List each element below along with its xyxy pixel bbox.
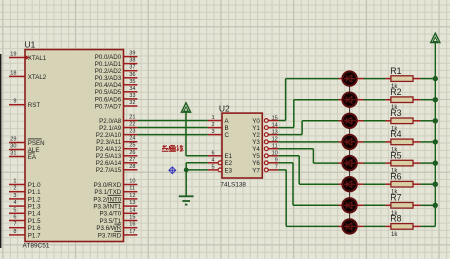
- svg-text:P2.3/A11: P2.3/A11: [96, 139, 122, 146]
- selection marker (blue): [169, 167, 176, 174]
- svg-text:XTAL2: XTAL2: [28, 74, 47, 81]
- svg-text:P1.0: P1.0: [28, 182, 41, 189]
- svg-text:U1: U1: [25, 40, 36, 50]
- pin P0.2/AD2 (37) U1 right: [95, 65, 138, 75]
- svg-text:32: 32: [129, 100, 135, 106]
- resistor R6 (1k): [385, 171, 420, 195]
- svg-text:6: 6: [13, 215, 16, 221]
- svg-text:5: 5: [211, 164, 214, 170]
- pin P2.4/A12 (25) U1 right: [96, 143, 138, 153]
- svg-text:37: 37: [129, 65, 135, 71]
- svg-text:19: 19: [10, 52, 16, 58]
- pin E1 (6) U2 left: [208, 150, 233, 160]
- svg-text:26: 26: [129, 150, 135, 156]
- LED D7: [339, 198, 364, 212]
- svg-text:P1.6: P1.6: [28, 225, 41, 232]
- pin A (1) U2 left: [208, 115, 230, 125]
- junction node rail row 4: [433, 139, 438, 144]
- wire resistor R3 to VCC rail: [420, 120, 435, 122]
- svg-text:2: 2: [13, 186, 16, 192]
- wire LED D1 to resistor R1: [364, 78, 386, 80]
- svg-text:17: 17: [129, 229, 135, 235]
- svg-text:AT89C51: AT89C51: [23, 243, 50, 250]
- pin P2.7/A15 (28) U1 right: [96, 164, 138, 174]
- wire resistor R1 to VCC rail: [420, 78, 435, 80]
- svg-text:18: 18: [10, 70, 16, 76]
- svg-text:11: 11: [129, 186, 135, 192]
- op U1 body (AT89C51): [25, 50, 124, 242]
- svg-text:38: 38: [129, 58, 135, 64]
- svg-text:P3.0/RXD: P3.0/RXD: [94, 182, 122, 189]
- wire LED D4 to resistor R4: [364, 141, 386, 143]
- svg-text:Y6: Y6: [252, 160, 260, 167]
- svg-text:P2.2/A10: P2.2/A10: [96, 132, 122, 139]
- pin Y0 (15) U2 right: [252, 115, 278, 125]
- svg-text:35: 35: [129, 79, 135, 85]
- pin P2.0/A8 (21) U1 right: [99, 115, 137, 125]
- svg-text:P1.3: P1.3: [28, 204, 41, 211]
- svg-text:Y7: Y7: [252, 167, 260, 174]
- junction node rail row 2: [433, 97, 438, 102]
- pin Y3 (12) U2 right: [252, 137, 278, 147]
- pin P3.5/T1 (15) U1 right: [100, 215, 138, 225]
- pin P2.6/A14 (27) U1 right: [96, 157, 138, 167]
- svg-text:Y0: Y0: [252, 118, 260, 125]
- svg-text:4: 4: [13, 200, 16, 206]
- svg-text:16: 16: [129, 222, 135, 228]
- svg-text:P3.4/T0: P3.4/T0: [100, 211, 122, 218]
- svg-text:P1.2: P1.2: [28, 196, 41, 203]
- pin P1.7 (8) U1 left: [9, 229, 41, 239]
- wire E3 to ground net: [186, 169, 208, 171]
- svg-text:13: 13: [272, 129, 278, 135]
- svg-text:P0.0/AD0: P0.0/AD0: [95, 54, 122, 61]
- pin P1.1 (2) U1 left: [9, 186, 41, 196]
- svg-text:P0.6/AD6: P0.6/AD6: [95, 96, 122, 103]
- power symbol VCC top right: [431, 33, 440, 42]
- wire P2.1 to U2 B: [137, 127, 208, 129]
- svg-text:30: 30: [10, 144, 16, 150]
- svg-text:P2.7/A15: P2.7/A15: [96, 167, 122, 174]
- svg-text:5: 5: [13, 207, 16, 213]
- wire Y4 to LED D5: [278, 149, 338, 163]
- svg-text:9: 9: [275, 158, 278, 164]
- svg-text:15: 15: [272, 115, 278, 121]
- LED D1: [339, 71, 364, 85]
- pin P3.3/INT1 (13) U1 right: [93, 200, 137, 210]
- svg-text:XTAL1: XTAL1: [28, 55, 47, 62]
- pin PSEN (29) U1 left: [9, 137, 45, 147]
- svg-text:P1.7: P1.7: [28, 232, 41, 239]
- wire power to E1: [186, 111, 208, 155]
- pin P2.3/A11 (24) U1 right: [96, 136, 137, 146]
- svg-text:P2.5/A13: P2.5/A13: [96, 153, 122, 160]
- svg-text:E2: E2: [225, 160, 233, 167]
- svg-text:Y5: Y5: [252, 153, 260, 160]
- wire resistor R8 to VCC rail: [420, 225, 435, 227]
- svg-text:21: 21: [129, 115, 135, 121]
- svg-text:7: 7: [275, 165, 278, 171]
- svg-text:R4: R4: [390, 129, 401, 139]
- pin P0.3/AD3 (36) U1 right: [95, 72, 138, 82]
- wire Y2 to LED D3: [278, 121, 338, 135]
- pin P0.4/AD4 (35) U1 right: [95, 79, 138, 89]
- svg-text:R7: R7: [390, 193, 401, 203]
- pin P2.1/A9 (22) U1 right: [99, 122, 137, 132]
- svg-text:RST: RST: [28, 102, 41, 109]
- svg-text:P2.1/A9: P2.1/A9: [99, 125, 122, 132]
- wire resistor R2 to VCC rail: [420, 99, 435, 101]
- pin E2 (4) U2 left: [208, 157, 233, 167]
- pin P0.0/AD0 (39) U1 right: [95, 51, 138, 61]
- svg-text:1k: 1k: [391, 232, 398, 238]
- junction node rail row 3: [433, 118, 438, 123]
- pin P3.4/T0 (14) U1 right: [100, 207, 138, 217]
- pin XTAL1 (19) U1 left: [9, 52, 47, 62]
- pin XTAL2 (18) U1 left: [9, 70, 47, 80]
- pin C (3) U2 left: [208, 129, 230, 139]
- svg-text:22: 22: [129, 122, 135, 128]
- resistor R2 (1k): [385, 87, 420, 111]
- svg-text:1: 1: [211, 115, 214, 121]
- svg-text:25: 25: [129, 143, 135, 149]
- wire Y7 to LED D8: [278, 170, 338, 227]
- svg-text:R8: R8: [390, 214, 401, 224]
- pin RST (9) U1 left: [9, 99, 40, 109]
- wire Y0 to LED D1: [278, 79, 338, 121]
- pin P3.1/TXD (11) U1 right: [94, 186, 137, 196]
- pin P0.5/AD5 (34) U1 right: [95, 86, 138, 96]
- svg-text:12: 12: [272, 137, 278, 143]
- svg-text:P2.4/A12: P2.4/A12: [96, 146, 122, 153]
- svg-text:10: 10: [129, 179, 135, 185]
- pin B (2) U2 left: [208, 122, 229, 132]
- resistor R1 (1k): [385, 66, 420, 90]
- svg-text:29: 29: [10, 137, 16, 143]
- svg-text:31: 31: [10, 151, 16, 157]
- wire LED D6 to resistor R6: [364, 183, 386, 185]
- svg-text:8: 8: [13, 229, 16, 235]
- pin P1.0 (1) U1 left: [9, 179, 41, 189]
- pin P1.5 (6) U1 left: [9, 215, 41, 225]
- svg-text:2: 2: [211, 122, 214, 128]
- svg-text:11: 11: [272, 144, 278, 150]
- wire LED D2 to resistor R2: [364, 99, 386, 101]
- svg-text:P1.4: P1.4: [28, 211, 41, 218]
- wire LED D7 to resistor R7: [364, 204, 386, 206]
- artifact vertical line through LED column: [349, 79, 351, 227]
- wire Y3 to LED D4: [278, 141, 338, 143]
- svg-text:P0.2/AD2: P0.2/AD2: [95, 68, 122, 75]
- svg-text:R2: R2: [390, 87, 401, 97]
- LED D6: [339, 177, 364, 191]
- svg-text:R3: R3: [390, 108, 401, 118]
- pin P2.2/A10 (23) U1 right: [96, 129, 138, 139]
- pin P3.2/INT0 (12) U1 right: [93, 193, 137, 203]
- junction node E3: [184, 168, 189, 173]
- pin EA (31) U1 left: [9, 151, 37, 161]
- pin ALE (30) U1 left: [9, 144, 40, 154]
- svg-text:EA: EA: [28, 154, 37, 161]
- svg-text:10: 10: [272, 151, 278, 157]
- svg-text:R6: R6: [390, 171, 401, 181]
- svg-text:15: 15: [129, 215, 135, 221]
- resistor R3 (1k): [385, 108, 420, 132]
- screen edge artifact left: [0, 54, 1, 248]
- junction node rail row 1: [433, 76, 438, 81]
- svg-text:28: 28: [129, 164, 135, 170]
- pin P0.1/AD1 (38) U1 right: [95, 58, 138, 68]
- svg-text:24: 24: [129, 136, 135, 142]
- svg-text:6: 6: [211, 150, 214, 156]
- power symbol on E1 net: [181, 103, 190, 112]
- svg-text:PSEN: PSEN: [28, 140, 45, 147]
- svg-text:Y2: Y2: [252, 132, 260, 139]
- pin marker XTAL1 input arrow: [25, 55, 30, 59]
- wire VCC vertical rail: [434, 43, 436, 227]
- pin P3.7/RD (17) U1 right: [98, 229, 138, 239]
- svg-text:12: 12: [129, 193, 135, 199]
- svg-text:Y4: Y4: [252, 146, 260, 153]
- pin Y4 (11) U2 right: [252, 144, 278, 154]
- svg-text:3: 3: [211, 129, 214, 135]
- svg-text:P3.3/INT1: P3.3/INT1: [93, 204, 121, 211]
- svg-text:P2.0/A8: P2.0/A8: [99, 118, 122, 125]
- svg-text:14: 14: [272, 122, 278, 128]
- net label 选通线 (hand-drawn glyphs): [162, 145, 184, 152]
- wire resistor R6 to VCC rail: [420, 183, 435, 185]
- wire resistor R5 to VCC rail: [420, 162, 435, 164]
- wire Y1 to LED D2: [278, 100, 338, 128]
- junction node rail row 7: [433, 203, 438, 208]
- svg-text:B: B: [225, 125, 229, 132]
- LED D2: [339, 93, 364, 107]
- pin E3 (5) U2 left: [208, 164, 233, 174]
- svg-text:P0.5/AD5: P0.5/AD5: [95, 89, 122, 96]
- svg-text:4: 4: [211, 157, 214, 163]
- svg-text:1: 1: [13, 179, 16, 185]
- svg-text:R1: R1: [390, 66, 401, 76]
- pin P3.6/WR (16) U1 right: [96, 222, 137, 232]
- LED D4: [339, 135, 364, 149]
- svg-text:P0.1/AD1: P0.1/AD1: [95, 61, 122, 68]
- svg-text:E1: E1: [225, 153, 233, 160]
- wire LED D5 to resistor R5: [364, 162, 386, 164]
- svg-text:E3: E3: [225, 167, 233, 174]
- resistor R5 (1k): [385, 150, 420, 174]
- ground symbol: [179, 196, 194, 204]
- svg-text:13: 13: [129, 200, 135, 206]
- wire E2 to ground net: [186, 163, 208, 196]
- svg-text:3: 3: [13, 193, 16, 199]
- svg-text:U2: U2: [219, 103, 230, 113]
- svg-text:P0.3/AD3: P0.3/AD3: [95, 75, 122, 82]
- wire LED D8 to resistor R8: [364, 225, 386, 227]
- pin P1.2 (3) U1 left: [9, 193, 41, 203]
- svg-text:39: 39: [129, 51, 135, 57]
- svg-text:27: 27: [129, 157, 135, 163]
- svg-text:P2.6/A14: P2.6/A14: [96, 160, 122, 167]
- pin Y2 (13) U2 right: [252, 129, 278, 139]
- svg-text:P3.7/RD: P3.7/RD: [98, 232, 122, 239]
- svg-text:C: C: [225, 132, 230, 139]
- pin P0.6/AD6 (33) U1 right: [95, 93, 138, 103]
- svg-text:P1.5: P1.5: [28, 218, 41, 225]
- svg-text:14: 14: [129, 207, 135, 213]
- resistor R8 (1k): [385, 214, 420, 238]
- svg-text:P1.1: P1.1: [28, 189, 41, 196]
- pin P2.5/A13 (26) U1 right: [96, 150, 138, 160]
- resistor R7 (1k): [385, 193, 420, 217]
- pin Y1 (14) U2 right: [252, 122, 278, 132]
- wire LED D3 to resistor R3: [364, 120, 386, 122]
- svg-text:36: 36: [129, 72, 135, 78]
- wire Y5 to LED D6: [278, 156, 338, 184]
- pin Y7 (7) U2 right: [252, 165, 278, 175]
- pin P1.6 (7) U1 left: [9, 222, 41, 232]
- pin Y5 (10) U2 right: [252, 151, 278, 161]
- pin Y6 (9) U2 right: [252, 158, 278, 168]
- wire Y6 to LED D7: [278, 163, 338, 206]
- LED D8: [339, 219, 364, 233]
- decoder U2 body (74LS138): [222, 113, 262, 178]
- svg-text:34: 34: [129, 86, 135, 92]
- LED D3: [339, 114, 364, 128]
- wire resistor R4 to VCC rail: [420, 141, 435, 143]
- resistor R4 (1k): [385, 129, 420, 153]
- junction node rail row 6: [433, 182, 438, 187]
- svg-text:R5: R5: [390, 150, 401, 160]
- pin P3.0/RXD (10) U1 right: [94, 179, 138, 189]
- svg-text:P0.7/AD7: P0.7/AD7: [95, 103, 122, 110]
- pin P0.7/AD7 (32) U1 right: [95, 100, 138, 110]
- wire resistor R7 to VCC rail: [420, 204, 435, 206]
- wire P2.0 to U2 A: [137, 120, 208, 122]
- svg-text:7: 7: [13, 222, 16, 228]
- svg-text:23: 23: [129, 129, 135, 135]
- svg-text:33: 33: [129, 93, 135, 99]
- svg-text:9: 9: [13, 99, 16, 105]
- wire P2.2 to U2 C: [137, 134, 208, 136]
- junction node rail row 5: [433, 160, 438, 165]
- LED D5: [339, 156, 364, 170]
- svg-text:P0.4/AD4: P0.4/AD4: [95, 82, 122, 89]
- svg-text:74LS138: 74LS138: [220, 181, 246, 188]
- pin P1.3 (4) U1 left: [9, 200, 41, 210]
- svg-text:Y1: Y1: [252, 125, 260, 132]
- pin P1.4 (5) U1 left: [9, 207, 41, 217]
